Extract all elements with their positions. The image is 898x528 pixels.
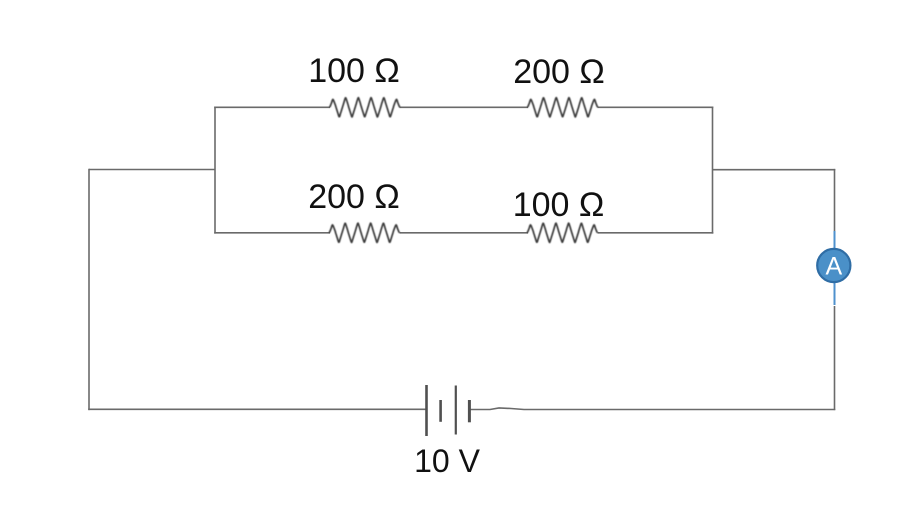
resistor R1 100 ohm (top-left) <box>330 98 400 117</box>
battery plate: short negative (right cell) <box>468 400 471 422</box>
node: right junction vertical bus <box>712 107 714 234</box>
wire: bottom branch rail left segment <box>214 232 330 234</box>
wire: top rail left segment <box>214 106 330 108</box>
wire: bottom rail right of battery (slight hand-drawn wobble) <box>469 408 835 410</box>
wire: right feed horizontal to ammeter branch <box>713 169 836 171</box>
battery plate: short negative <box>439 400 442 422</box>
battery plate: long positive (left) <box>425 385 428 436</box>
svg-text:100 Ω: 100 Ω <box>308 52 400 90</box>
node: left junction vertical bus <box>214 107 216 234</box>
wire: bottom branch rail middle segment <box>400 232 529 234</box>
resistor R2 200 ohm (top-right) <box>528 98 598 117</box>
wire: top rail right segment <box>598 106 714 108</box>
resistor R4 100 ohm (bottom-right) <box>527 223 597 242</box>
svg-text:200 Ω: 200 Ω <box>308 178 400 216</box>
svg-text:A: A <box>825 253 842 281</box>
battery plate: long positive (right cell) <box>455 386 457 435</box>
wire: bottom branch rail right segment <box>598 232 714 234</box>
ammeter A1: blue lead below <box>834 282 836 305</box>
battery V1 (10 V source) <box>427 385 470 436</box>
svg-text:100 Ω: 100 Ω <box>513 186 605 224</box>
wire: right outer vertical above ammeter <box>834 169 836 231</box>
wire: left outer vertical <box>88 169 90 410</box>
ammeter A1: body circle <box>817 249 850 282</box>
ammeter A1: blue lead above <box>834 231 836 249</box>
wire: left feed horizontal <box>89 169 215 171</box>
svg-text:10 V: 10 V <box>414 443 480 479</box>
resistor R3 200 ohm (bottom-left) <box>329 223 399 242</box>
wire: right outer vertical below ammeter <box>834 306 836 410</box>
wire: bottom rail left of battery <box>88 408 426 410</box>
svg-text:200 Ω: 200 Ω <box>513 53 605 91</box>
wire: top rail middle segment <box>400 106 529 108</box>
